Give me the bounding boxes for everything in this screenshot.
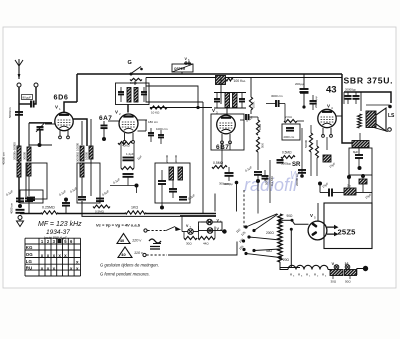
terminal: [18, 216, 22, 220]
wire V2 g2: [138, 130, 147, 132]
resistor hatch psu: [344, 188, 356, 195]
pilot lamp: [184, 62, 191, 64]
junction: [38, 143, 42, 147]
resistor 10K: [150, 106, 167, 109]
wire V3 top: [220, 78, 222, 105]
wire mains: [357, 268, 364, 270]
heater coils: [288, 265, 296, 269]
equals symbol: [150, 246, 160, 248]
svg-text:1934-37: 1934-37: [46, 229, 70, 236]
resistor box small: [323, 155, 331, 162]
V3 pin 2: [229, 134, 231, 141]
capacitor: [277, 159, 284, 161]
output transformer primary: [352, 141, 369, 148]
lamp 16: [345, 265, 350, 270]
svg-text:0.25MΩ: 0.25MΩ: [42, 206, 55, 210]
capacitor 0.1uF left: [16, 209, 25, 211]
svg-text:200Ω: 200Ω: [266, 231, 274, 235]
wire B+ riser: [342, 74, 352, 143]
svg-text:1000 cm: 1000 cm: [156, 127, 168, 131]
T1 capacitor right: [141, 91, 147, 93]
svg-text:KG: KG: [26, 245, 33, 250]
svg-text:V: V: [322, 273, 324, 277]
svg-text:x: x: [64, 253, 67, 258]
svg-text:8μF: 8μF: [353, 150, 358, 154]
svg-text:30000: 30000: [174, 155, 178, 163]
svg-text:x: x: [70, 266, 73, 271]
svg-text:30Ω: 30Ω: [186, 242, 192, 246]
page border: [3, 27, 396, 288]
V3 pin 1: [221, 134, 223, 141]
T1 coil 2: [134, 88, 138, 103]
svg-text:0,2 MΩ: 0,2 MΩ: [270, 175, 274, 186]
resistor bias 1: [309, 133, 312, 152]
svg-text:40000 cm: 40000 cm: [2, 152, 6, 165]
gang dashes vertical: [243, 190, 245, 228]
svg-text:V: V: [55, 105, 58, 110]
svg-text:1,2μF: 1,2μF: [126, 152, 134, 156]
capacitor below: [123, 173, 134, 175]
wire OSPER: [181, 72, 183, 74]
wire: [284, 104, 286, 122]
svg-text:25Z5: 25Z5: [338, 228, 357, 237]
junction: [196, 106, 199, 109]
svg-text:200μμ: 200μμ: [295, 82, 304, 86]
svg-text:MF = 123 kHz: MF = 123 kHz: [38, 221, 82, 228]
T2 coil 1: [225, 93, 230, 108]
svg-text:3000 cm: 3000 cm: [271, 94, 283, 98]
capacitor V2 input: [101, 125, 108, 127]
wire V3 pins: [221, 142, 223, 150]
tube V4 43: [318, 109, 336, 127]
svg-text:V: V: [306, 273, 308, 277]
lamp branch wires: [183, 232, 185, 239]
OSPER box: [172, 64, 193, 72]
junction: [18, 204, 22, 208]
svg-text:50000: 50000: [304, 140, 308, 148]
resistor 100K column: [80, 146, 84, 161]
svg-text:2000 cm: 2000 cm: [284, 135, 295, 139]
svg-text:V: V: [314, 273, 316, 277]
resistor 50: [121, 167, 134, 170]
triangle 120V: [117, 234, 130, 244]
svg-text:10 KΩ: 10 KΩ: [151, 111, 160, 115]
V4 pin 1: [322, 128, 324, 135]
svg-text:30000Ω 10000: 30000Ω 10000: [76, 143, 80, 162]
AC symbol: [149, 239, 161, 243]
svg-text:20000+30000: 20000+30000: [13, 142, 17, 160]
svg-text:SR: SR: [292, 162, 301, 168]
lamp V6: [207, 219, 213, 225]
coil bar 2: [178, 167, 183, 180]
junction: [347, 175, 351, 179]
resistor 100K ohm bus: [216, 76, 226, 85]
wire down to bus: [202, 102, 204, 214]
speaker terminal top: [388, 105, 392, 109]
T2 capacitor right: [239, 98, 245, 100]
svg-text:180 cm: 180 cm: [148, 120, 158, 124]
resistor 1M vertical: [256, 120, 259, 135]
speaker cone LS: [376, 108, 386, 131]
svg-text:1KΩ: 1KΩ: [131, 206, 138, 210]
wire feedback: [150, 107, 212, 109]
box around AF coupling: [77, 163, 100, 203]
wire terminal 2: [35, 87, 37, 101]
svg-text:G fermé pendant mesures.: G fermé pendant mesures.: [100, 272, 150, 277]
capacitor mid: [169, 188, 177, 190]
wire T1 to V2: [127, 104, 129, 113]
svg-text:x: x: [76, 266, 79, 271]
earth terminal: [34, 83, 38, 87]
svg-text:V: V: [310, 213, 313, 218]
wire bus 2: [146, 213, 216, 215]
chassis ground: [17, 221, 24, 227]
junction mains: [363, 266, 368, 271]
wire: [257, 181, 259, 214]
wire selector to coils: [280, 262, 288, 270]
capacitor 8uF: [355, 154, 363, 156]
wire diag: [372, 127, 388, 132]
svg-text:20000 cm: 20000 cm: [295, 173, 299, 186]
wire V1 plate: [73, 119, 87, 146]
wire: [366, 104, 390, 106]
resistor zigzag: [226, 78, 233, 81]
wire AVC bus: [146, 77, 342, 79]
output transformer winding: [358, 114, 362, 128]
capacitor 0.3uF: [179, 196, 187, 198]
svg-text:V: V: [327, 104, 330, 109]
selector fan lines: [246, 214, 277, 227]
svg-text:100K: 100K: [252, 101, 256, 108]
wire plate V4: [336, 115, 342, 117]
svg-text:0.5MΩ: 0.5MΩ: [282, 151, 292, 155]
capacitor 0.1uF column B: [25, 198, 33, 200]
svg-text:x: x: [53, 266, 56, 271]
wire transformer: [359, 133, 361, 140]
IF transformer T1 box: [116, 83, 150, 105]
resistor 20000 ohm column A: [17, 146, 21, 161]
speaker terminal bottom: [388, 128, 392, 132]
lamp V9: [207, 228, 213, 234]
wire bus: [58, 213, 125, 215]
svg-text:LS: LS: [388, 113, 395, 119]
junction: [102, 137, 106, 141]
svg-text:20000μμ: 20000μμ: [314, 96, 318, 108]
wire return bus: [82, 201, 216, 216]
wire AVC rect 2: [146, 86, 198, 108]
svg-text:10000: 10000: [85, 152, 89, 160]
svg-text:110 v: 110 v: [134, 251, 144, 255]
triangle 110V: [118, 247, 132, 258]
capacitor PSU 1: [345, 95, 352, 97]
T1 capacitor left: [118, 91, 124, 93]
svg-text:G gesloten tijdens de meti: G gesloten tijdens de metingen.: [100, 263, 159, 268]
ground bus: [20, 213, 41, 215]
V5 arrows: [327, 225, 339, 230]
resistor 50K vertical: [256, 137, 259, 152]
svg-text:50Ω: 50Ω: [345, 280, 351, 284]
svg-text:6D6: 6D6: [54, 93, 69, 102]
resistor bias 2: [316, 146, 319, 158]
capacitor 80pF series: [22, 95, 33, 100]
T1 coil 1: [127, 88, 131, 103]
capacitor 0.1uF: [245, 114, 247, 120]
svg-text:43: 43: [326, 85, 337, 96]
wire V5 top: [317, 203, 319, 221]
svg-text:44Ω: 44Ω: [203, 242, 209, 246]
capacitor in box: [27, 197, 35, 199]
resistor 30 ohm: [184, 236, 197, 239]
hatch small: [359, 179, 367, 184]
junction: [160, 206, 164, 210]
resistor column D: [89, 146, 93, 159]
box 2000cm: [282, 124, 300, 140]
tube V5 25Z5: [308, 221, 327, 240]
svg-text:20Ω: 20Ω: [283, 258, 290, 262]
svg-text:SBR 375U.: SBR 375U.: [344, 76, 394, 86]
wire: [356, 192, 372, 194]
tapped resistor mains: [278, 214, 282, 262]
junction: [358, 166, 362, 170]
V2 pin 2: [132, 133, 134, 141]
svg-text:x: x: [47, 266, 50, 271]
svg-text:x: x: [76, 259, 79, 264]
svg-text:20000μμ: 20000μμ: [345, 88, 356, 92]
svg-text:40: 40: [121, 252, 125, 257]
capacitor 20000cm left: [298, 169, 306, 171]
junction: [302, 105, 305, 108]
svg-text:V: V: [298, 273, 300, 277]
wire V2 plate: [138, 119, 147, 121]
svg-text:LG: LG: [26, 259, 33, 264]
svg-text:V: V: [212, 108, 215, 113]
capacitor pair: [158, 134, 164, 136]
V1 pin 2: [67, 131, 69, 137]
svg-text:45Ω: 45Ω: [266, 249, 273, 253]
decoupling box: [155, 163, 190, 203]
wire V1 left: [45, 123, 55, 125]
capacitor 300uu: [225, 172, 234, 174]
junction: [300, 174, 304, 178]
box around V3: [211, 114, 244, 150]
capacitor 0.1uF mid: [62, 202, 70, 204]
junction: [278, 220, 281, 223]
junction: [135, 184, 139, 188]
svg-text:4000 cm: 4000 cm: [10, 202, 14, 214]
svg-text:2 KΩ: 2 KΩ: [285, 115, 293, 119]
IF transformer T2 capacitor left: [214, 98, 220, 100]
wire mains bottom: [280, 262, 300, 268]
wire transformer feed: [360, 92, 362, 111]
svg-text:50K: 50K: [261, 143, 265, 148]
svg-text:20000: 20000: [165, 155, 169, 163]
wire AVC rect: [146, 78, 203, 103]
volume control box: [26, 163, 47, 199]
svg-text:80μμF: 80μμF: [23, 96, 32, 100]
svg-text:x: x: [58, 253, 61, 258]
svg-text:30Ω: 30Ω: [331, 280, 337, 284]
junction 300uu: [235, 181, 239, 185]
svg-text:V: V: [115, 110, 118, 115]
wire bus thick end: [180, 215, 216, 217]
svg-text:x: x: [53, 253, 56, 258]
wire: [240, 119, 244, 121]
svg-text:x: x: [41, 253, 44, 258]
svg-text:x: x: [47, 253, 50, 258]
heater resistor 2: [345, 270, 357, 276]
wire lead 1: [332, 276, 334, 280]
wire: [343, 92, 345, 104]
svg-text:100 Kω.: 100 Kω.: [234, 79, 247, 83]
wire top bus: [77, 73, 342, 75]
svg-text:40: 40: [120, 238, 124, 243]
junction: [222, 229, 226, 233]
wire antenna down: [18, 87, 20, 203]
lamp wiring: [182, 231, 188, 233]
resistor 0.5M ohm: [93, 205, 110, 208]
rectifier box: [324, 203, 372, 249]
coil bar 1: [169, 167, 174, 180]
tube V2 6A7: [119, 114, 138, 133]
wire V2 left cap: [108, 120, 119, 122]
capacitor PSU 2: [353, 95, 360, 97]
V4 pin 2: [330, 128, 332, 135]
wire V1 top cap: [64, 102, 77, 112]
svg-text:x: x: [41, 266, 44, 271]
antenna: [18, 66, 20, 79]
capacitor dark: [158, 180, 166, 182]
junction: [256, 179, 260, 183]
capacitor 0.5uF: [96, 198, 104, 200]
B+ line: [344, 92, 391, 103]
wire bus riser V1: [76, 74, 78, 102]
capacitor 0.1uF: [78, 196, 86, 198]
svg-text:30000: 30000: [23, 152, 27, 160]
output box: [349, 148, 372, 175]
junction: [64, 198, 68, 202]
trimmer capacitor: [29, 122, 52, 124]
wire speaker: [374, 112, 376, 114]
svg-text:V: V: [290, 273, 292, 277]
V2 pin 1: [124, 133, 126, 141]
wire 300uu down: [236, 184, 238, 212]
tube V1 6D6: [55, 112, 73, 130]
T2 wires: [214, 92, 246, 94]
tube V3 6B7: [217, 115, 236, 134]
V1 pin 1: [59, 131, 61, 137]
field core: [366, 111, 376, 128]
capacitor 1000cm: [148, 132, 154, 134]
svg-text:6B7: 6B7: [216, 144, 229, 151]
svg-text:OG: OG: [26, 252, 33, 257]
heater resistor 1: [330, 270, 343, 276]
capacitor 5000cm: [15, 111, 23, 113]
svg-text:G: G: [128, 60, 132, 66]
junction: [361, 174, 365, 178]
wire V2 bottom: [120, 143, 122, 168]
gang switch circle 2: [143, 253, 146, 256]
svg-text:RU: RU: [26, 265, 32, 270]
svg-text:90Ω: 90Ω: [287, 214, 294, 218]
selector tap wire: [282, 219, 292, 221]
waveband table: [25, 237, 81, 239]
T2 coil 2: [233, 93, 238, 108]
capacitor 20000uu: [310, 100, 317, 102]
capacitor antenna ground: [16, 198, 24, 200]
antenna terminal: [17, 83, 21, 87]
svg-text:5000cm: 5000cm: [8, 107, 12, 118]
wire V2 vertical: [145, 120, 147, 131]
lamp V10: [334, 265, 339, 270]
resistor 44 ohm: [198, 236, 215, 239]
selector arm wire: [168, 242, 237, 256]
resistor 100K vertical: [249, 97, 252, 110]
selector arm contact: [290, 228, 293, 231]
lamp V7: [188, 229, 194, 235]
gang switch circle 1: [144, 229, 147, 232]
svg-text:300μμ: 300μμ: [224, 182, 233, 186]
capacitor 5000uu: [262, 175, 269, 177]
svg-text:120 v: 120 v: [132, 239, 142, 243]
resistor 9K ohm: [130, 78, 142, 80]
resistor column B: [28, 145, 30, 147]
wire V4 cathode: [326, 137, 328, 150]
junction: [318, 182, 322, 186]
svg-text:Vc = Vp = Vg = 4V o.a.b: Vc = Vp = Vg = 4V o.a.b: [96, 223, 141, 228]
wire box down: [214, 194, 216, 212]
svg-text:1MΩ: 1MΩ: [258, 124, 262, 130]
selector contacts: [244, 225, 247, 228]
